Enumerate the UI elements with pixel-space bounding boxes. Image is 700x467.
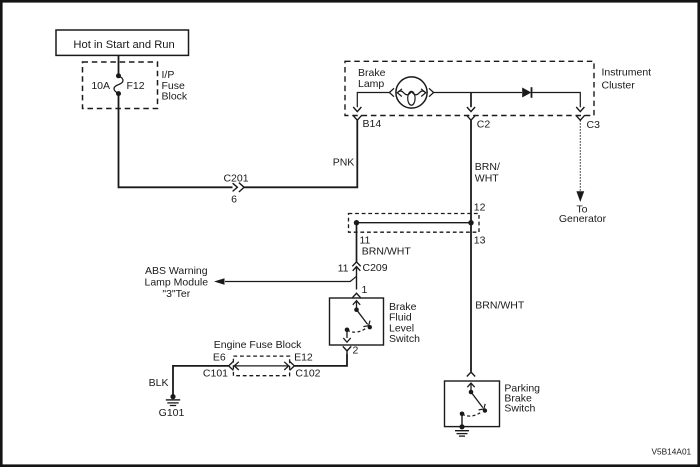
- wire from fuse to connector C201: [119, 94, 233, 188]
- svg-text:Switch: Switch: [504, 403, 535, 415]
- svg-text:Cluster: Cluster: [602, 79, 636, 91]
- connector C201 pin 6: [223, 172, 248, 205]
- svg-text:PNK: PNK: [333, 157, 355, 169]
- node Brake Lamp label: [358, 67, 386, 90]
- svg-text:10A: 10A: [91, 80, 110, 92]
- svg-text:C101: C101: [203, 367, 228, 379]
- connector C209 pin 11: [338, 262, 388, 290]
- wire PNK from C201 up to pin B14: [244, 120, 357, 187]
- svg-text:C201: C201: [223, 172, 248, 184]
- diode D1: [522, 87, 531, 98]
- connector C102: [284, 361, 320, 379]
- svg-text:F12: F12: [127, 80, 145, 92]
- fuse F12 10A: [91, 73, 144, 96]
- connector C101: [203, 361, 239, 379]
- svg-text:ABS Warning: ABS Warning: [145, 265, 208, 277]
- svg-text:WHT: WHT: [475, 173, 499, 185]
- wire from lamp to diode: [434, 92, 522, 94]
- instrument cluster: [345, 61, 651, 115]
- svg-text:13: 13: [474, 234, 486, 246]
- svg-text:G101: G101: [159, 407, 185, 419]
- node To Generator: [559, 191, 607, 225]
- pin C2: [467, 93, 491, 131]
- svg-text:Hot in Start and Run: Hot in Start and Run: [73, 39, 174, 51]
- svg-text:Generator: Generator: [559, 213, 607, 225]
- wire from pin 2 to connector C102: [294, 354, 347, 366]
- splice connector pins 12 13 11: [349, 201, 486, 246]
- svg-text:BRN/: BRN/: [475, 161, 500, 173]
- wire from Hot box to fuse F12: [118, 55, 120, 75]
- svg-text:Switch: Switch: [389, 333, 420, 345]
- wire from diode to pin C3: [532, 93, 580, 108]
- svg-text:E6: E6: [213, 352, 226, 364]
- node BRN/WHT label upper: [475, 161, 500, 185]
- svg-text:2: 2: [353, 345, 359, 357]
- svg-text:C3: C3: [587, 119, 601, 131]
- pin 2 of brake fluid level switch: [343, 345, 359, 357]
- lamp L1 brake lamp bulb: [389, 77, 433, 108]
- I/P Fuse Block: [83, 62, 188, 109]
- svg-text:Engine Fuse Block: Engine Fuse Block: [214, 339, 302, 351]
- svg-text:C209: C209: [363, 262, 388, 274]
- svg-text:C102: C102: [295, 367, 320, 379]
- wire to generator: [579, 120, 581, 192]
- svg-text:Lamp Module: Lamp Module: [144, 277, 208, 289]
- wire BRN/WHT from pin C2 down to parking brake switch: [470, 120, 472, 372]
- svg-text:BRN/WHT: BRN/WHT: [475, 300, 525, 312]
- svg-text:V5B14A01: V5B14A01: [652, 447, 692, 457]
- svg-text:6: 6: [231, 193, 237, 205]
- svg-text:Lamp: Lamp: [358, 78, 384, 90]
- svg-text:BLK: BLK: [149, 377, 169, 389]
- wire BRN/WHT from splice to connector C209: [357, 223, 412, 262]
- pin connector of parking brake switch: [467, 372, 475, 376]
- pin B14: [353, 107, 382, 130]
- svg-text:Block: Block: [162, 91, 188, 103]
- node Hot in Start and Run: [56, 30, 189, 55]
- parking brake switch S2: [445, 381, 541, 427]
- svg-text:B14: B14: [363, 118, 382, 130]
- svg-text:E12: E12: [294, 352, 313, 364]
- svg-text:11: 11: [338, 262, 349, 274]
- wire BLK from C101 to ground G101: [149, 366, 229, 396]
- svg-text:C2: C2: [477, 119, 491, 131]
- pin 1 of brake fluid level switch: [352, 284, 367, 298]
- engine fuse block: [213, 339, 313, 376]
- ground of parking brake switch: [455, 424, 469, 436]
- wire inside engine fuse block: [235, 365, 288, 367]
- svg-text:12: 12: [474, 201, 486, 213]
- wire from lamp to pin B14: [357, 93, 389, 108]
- brake fluid level switch S1: [330, 298, 421, 345]
- svg-text:BRN/WHT: BRN/WHT: [362, 245, 412, 257]
- pin C3: [576, 107, 600, 131]
- node ABS Warning Lamp Module: [144, 265, 356, 300]
- svg-text:1: 1: [362, 284, 368, 296]
- svg-text:Instrument: Instrument: [602, 66, 652, 78]
- ground G101: [159, 394, 185, 419]
- svg-text:"3"Ter: "3"Ter: [162, 288, 190, 300]
